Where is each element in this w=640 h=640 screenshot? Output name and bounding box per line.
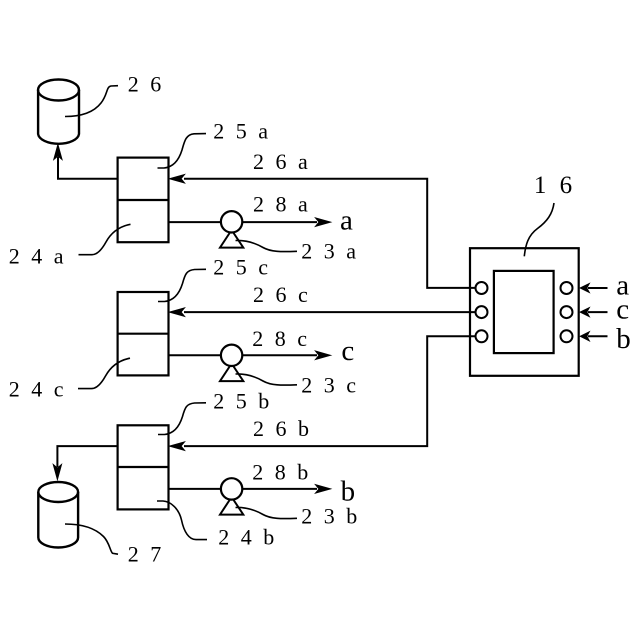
svg-text:2 6: 2 6 — [128, 72, 165, 97]
processing block 24b/25b — [118, 425, 169, 509]
svg-text:2 7: 2 7 — [128, 541, 165, 566]
svg-text:c: c — [341, 335, 354, 367]
output wire c with arrow — [169, 354, 318, 356]
leader for label 24a — [79, 224, 131, 254]
svg-text:2 8 a: 2 8 a — [253, 192, 311, 217]
output wire a with arrow — [169, 221, 318, 223]
svg-text:2 6 c: 2 6 c — [253, 282, 311, 307]
output wire b with arrow — [169, 488, 318, 490]
svg-text:2 3 c: 2 3 c — [301, 372, 359, 397]
port circle left 2 — [476, 306, 488, 318]
pump 23b — [220, 478, 243, 514]
arrowhead up into cylinder 26 — [54, 145, 62, 160]
svg-text:b: b — [616, 323, 631, 355]
leader for label 26 — [65, 86, 118, 117]
leader for label 24b — [157, 501, 207, 540]
svg-text:a: a — [340, 205, 353, 237]
wire 26b from circle3 with elbow down — [184, 336, 476, 446]
arrowhead 26a at block1 — [170, 175, 185, 183]
leader for label 16 — [524, 203, 554, 256]
cylinder 26 (tank top-left) — [38, 80, 79, 144]
controller box 16 inner — [494, 271, 554, 353]
leader for label 23b — [236, 507, 298, 518]
leader for label 23c — [236, 374, 298, 385]
leader for label 25c — [158, 269, 206, 301]
port circle right 2 — [561, 306, 573, 318]
arrowhead 26c at block2 — [170, 308, 185, 316]
cylinder 27 (tank bottom-left) — [38, 482, 78, 547]
wire 26a: from circle to block1 with elbow — [184, 179, 476, 288]
input arrow b right side — [580, 332, 607, 341]
port circle left 1 — [476, 282, 488, 294]
svg-text:2 8 c: 2 8 c — [252, 326, 310, 351]
svg-text:1 6: 1 6 — [534, 172, 576, 199]
input arrow c right side — [580, 308, 607, 317]
processing block 24a/25a — [118, 158, 169, 243]
wire block3 left down to cylinder 27 — [57, 446, 117, 467]
arrowhead output a — [316, 218, 331, 226]
port circle left 3 — [476, 330, 488, 342]
arrowhead output c — [316, 351, 331, 359]
svg-text:2 8 b: 2 8 b — [252, 460, 311, 485]
pump 23a — [220, 211, 243, 248]
arrowhead output b — [316, 485, 331, 493]
leader for label 23a — [236, 240, 298, 251]
leader for label 25b — [158, 403, 206, 435]
svg-text:2 3 a: 2 3 a — [301, 238, 359, 263]
svg-text:2 5 c: 2 5 c — [213, 254, 271, 279]
wire block1 left to cylinder 26 — [58, 157, 118, 179]
svg-text:2 4 b: 2 4 b — [218, 524, 277, 549]
leader for label 27 — [65, 524, 118, 554]
svg-text:2 4 a: 2 4 a — [9, 243, 67, 268]
input arrow a right side — [580, 284, 607, 293]
svg-text:2 5 a: 2 5 a — [213, 118, 271, 143]
processing block 24c/25c — [118, 292, 169, 375]
port circle right 1 — [561, 282, 573, 294]
arrowhead down into cylinder 27 — [53, 465, 61, 480]
svg-text:2 4 c: 2 4 c — [9, 376, 67, 401]
leader for label 25a — [158, 134, 207, 168]
pump 23c — [220, 345, 243, 382]
port circle right 3 — [561, 330, 573, 342]
svg-text:2 6 b: 2 6 b — [253, 416, 312, 441]
leader for label 24c — [78, 358, 130, 388]
svg-text:c: c — [616, 294, 629, 326]
svg-text:2 3 b: 2 3 b — [301, 503, 360, 528]
svg-text:2 5 b: 2 5 b — [213, 388, 272, 413]
wire 26c straight from circle2 to block2 — [184, 311, 476, 313]
arrowhead 26b at block3 — [170, 442, 185, 450]
svg-text:2 6 a: 2 6 a — [253, 149, 311, 174]
controller box 16 outer — [470, 248, 579, 376]
